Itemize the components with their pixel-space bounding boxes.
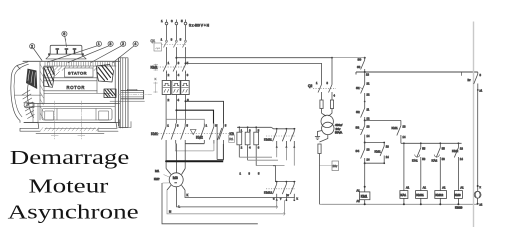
- wire A extension: [332, 57, 365, 59]
- switch lamp branch: [468, 72, 479, 91]
- lamp H1: [474, 191, 481, 205]
- isolator Q2: [308, 84, 336, 100]
- node rail top switch: [364, 57, 366, 59]
- contact KM11 p1: [273, 129, 278, 148]
- wire selfhold bottom: [365, 162, 385, 164]
- stator bottom line: [44, 66, 97, 104]
- contact S1 stop: [356, 84, 365, 108]
- svg-text:Demarrage: Demarrage: [10, 147, 130, 169]
- wire rail to coil: [364, 163, 366, 192]
- svg-text:A1: A1: [406, 186, 410, 190]
- dashed KM12: [266, 188, 296, 190]
- wire KM2 feed phase1: [166, 119, 204, 123]
- rotor wire r1: [185, 190, 295, 198]
- svg-text:S1: S1: [356, 86, 360, 90]
- end shield: [115, 58, 128, 129]
- wire motor feed U: [165, 144, 167, 169]
- wire L3 mid: [185, 48, 187, 65]
- callout 6 top: [62, 31, 67, 46]
- svg-text:KM1: KM1: [392, 126, 399, 130]
- svg-text:R1: R1: [229, 137, 233, 141]
- svg-text:KM1: KM1: [375, 150, 382, 154]
- node KM11 t2: [286, 128, 288, 130]
- svg-text:KM12: KM12: [435, 193, 443, 197]
- svg-text:Q1: Q1: [151, 39, 156, 43]
- wire lamp drop: [477, 90, 479, 191]
- coil KA1: [400, 191, 408, 206]
- node L1 terminal: [161, 19, 168, 25]
- wire KM12 out1: [276, 200, 278, 207]
- rotor lines: [44, 66, 110, 93]
- left winding overhang dark: [44, 67, 55, 87]
- svg-text:KA1: KA1: [400, 193, 406, 197]
- contact KM1 aux: [392, 120, 401, 143]
- node bank1 c1: [238, 126, 240, 128]
- body top line: [23, 61, 120, 66]
- svg-text:KM0: KM0: [455, 193, 461, 197]
- base hatch: [40, 128, 99, 132]
- svg-text:KM12: KM12: [264, 190, 272, 194]
- svg-text:50VA: 50VA: [335, 131, 342, 135]
- wire motor feed V: [176, 144, 178, 169]
- svg-text:A1: A1: [460, 186, 464, 190]
- callout 2 left: [30, 44, 42, 61]
- svg-text:2: 2: [31, 45, 33, 49]
- svg-text:4: 4: [134, 42, 136, 46]
- svg-text:M1: M1: [155, 169, 159, 173]
- contact KM3 box: [217, 124, 223, 160]
- pin labels control rail: [169, 65, 483, 214]
- contact KM2 p3: [219, 124, 224, 144]
- svg-text:A1: A1: [423, 186, 427, 190]
- wire p2 stub: [175, 144, 177, 151]
- node branch KM1aux: [364, 119, 366, 121]
- delta symbol: [190, 130, 196, 135]
- coil KM10: [454, 191, 462, 210]
- box 24V marker: [320, 161, 339, 171]
- contact KM12 p2: [282, 182, 287, 202]
- bus timer branches: [401, 142, 462, 144]
- svg-text:KM1: KM1: [361, 195, 368, 199]
- contact KM12 p1: [273, 182, 278, 202]
- bus control top: [356, 71, 478, 76]
- winding overhang dark: [97, 65, 114, 83]
- wire bank1 out2: [248, 159, 278, 161]
- node timer b1: [420, 142, 422, 144]
- node bus junction U: [165, 160, 167, 162]
- svg-text:S2: S2: [356, 110, 360, 114]
- centerline left: [54, 101, 56, 139]
- node timer b3: [458, 142, 460, 144]
- foot left: [20, 123, 40, 132]
- node tap control phase A: [175, 57, 177, 59]
- breaker Q1: [151, 39, 187, 51]
- contact KM12 p3: [290, 182, 295, 202]
- fan cover dark wedge: [26, 69, 37, 89]
- lower body: [24, 104, 120, 123]
- svg-text:Q2: Q2: [308, 84, 312, 88]
- label R1: [229, 135, 235, 143]
- svg-text:Asynchrone: Asynchrone: [8, 202, 139, 224]
- centerline cross ticks: [51, 135, 85, 137]
- contactor KM1 main contacts: [151, 65, 187, 74]
- node KM12 t2: [286, 181, 288, 183]
- TITLE-TEXT: [8, 147, 139, 224]
- rotor wire r3: [167, 190, 284, 214]
- wire secondary down: [319, 154, 321, 205]
- node coil KM1 top: [364, 186, 366, 188]
- wire p6 to bus: [223, 144, 225, 161]
- timer contact KA1b: [432, 143, 441, 190]
- node timer b0: [403, 142, 405, 144]
- svg-text:STATOR: STATOR: [68, 71, 87, 76]
- resistor bank1 bus: [237, 126, 271, 128]
- svg-text:KM2: KM2: [196, 135, 203, 139]
- control rail: [364, 72, 366, 84]
- svg-text:KM10: KM10: [455, 206, 463, 210]
- centerline right: [80, 101, 82, 139]
- wire KM11 out2: [285, 147, 287, 160]
- rotor wire r4: [162, 183, 258, 224]
- svg-text:KM2: KM2: [452, 149, 459, 153]
- resistor R1a: [237, 127, 242, 157]
- fan cover lower hatch: [22, 90, 34, 119]
- end shield foot: [120, 120, 132, 128]
- coil KM11: [416, 191, 428, 206]
- node tap KM2 phase2: [175, 109, 177, 111]
- contact KM1 selfhold: [375, 143, 385, 164]
- mounting ring hatch: [40, 64, 44, 119]
- svg-text:A1: A1: [442, 186, 446, 190]
- svg-text:6: 6: [63, 32, 65, 36]
- stator hatch band: [46, 67, 97, 76]
- svg-text:KA1: KA1: [412, 159, 418, 163]
- wire control feed A: [176, 58, 332, 85]
- wire KA1 branch: [403, 143, 405, 190]
- node lamp top: [477, 185, 479, 187]
- contact KM1 p3: [181, 124, 186, 144]
- inner cover edge: [27, 80, 33, 118]
- svg-text:3 x 400 V + N: 3 x 400 V + N: [189, 24, 210, 28]
- wire motor feed W: [184, 144, 186, 169]
- rail 0V bottom: [322, 203, 478, 205]
- wire bank1 bus ext: [271, 127, 295, 129]
- wire bank1 out1: [239, 156, 272, 158]
- node tap control phase B: [185, 62, 187, 64]
- svg-text:2: 2: [122, 42, 124, 46]
- fuse F3 secondary: [318, 135, 328, 154]
- dimension mark right: [154, 64, 158, 93]
- svg-text:ROTOR: ROTOR: [67, 85, 86, 90]
- node selfhold bottom: [364, 162, 366, 164]
- overload relay F1 phase3: [181, 81, 189, 95]
- svg-text:A2: A2: [357, 199, 361, 203]
- base bottom line: [36, 128, 104, 133]
- svg-text:KM1: KM1: [151, 66, 158, 70]
- svg-text:A1: A1: [357, 189, 361, 193]
- contact KM2 p2: [209, 124, 214, 144]
- svg-text:KM11: KM11: [416, 193, 424, 197]
- svg-text:S3: S3: [356, 126, 360, 130]
- wire phase1 to contact row: [165, 95, 167, 124]
- wire KM11 out1: [276, 147, 278, 157]
- contact S2: [356, 108, 365, 120]
- svg-text:w: w: [287, 194, 289, 197]
- contact KM2 aux: [452, 143, 459, 190]
- transformer T1: [321, 113, 343, 134]
- wire phase3 to contact row: [185, 95, 187, 124]
- callout 4: [113, 41, 138, 62]
- wire control feed B: [186, 63, 322, 84]
- coil KM12: [435, 191, 447, 206]
- callout 2b: [91, 41, 126, 62]
- overload relay F1 phase2: [172, 81, 180, 95]
- contact S3 start: [356, 120, 365, 142]
- terminal box: [46, 39, 86, 59]
- wire to overload: [166, 72, 168, 81]
- winding hatch dark: [98, 65, 113, 81]
- motor M1: [154, 169, 185, 192]
- svg-text:KM?: KM?: [154, 177, 160, 181]
- dashed KM11: [266, 135, 296, 137]
- node timer b2: [439, 142, 441, 144]
- contactor row dashed link: [158, 133, 231, 135]
- wire L1 drop: [166, 25, 168, 40]
- svg-text:24v: 24v: [333, 164, 338, 168]
- coil KM1: [360, 192, 370, 205]
- node bank1 c3: [255, 126, 257, 128]
- svg-text:Br: Br: [468, 78, 471, 82]
- svg-text:3: 3: [109, 42, 111, 46]
- callout 1: [48, 41, 102, 62]
- contact KM1 p2: [171, 124, 176, 144]
- rotor line end bracket: [276, 205, 285, 215]
- node bus junction W: [184, 160, 186, 162]
- wire link p3-p4: [185, 143, 204, 145]
- svg-text:KM11: KM11: [264, 138, 272, 142]
- shaft left boss: [24, 103, 34, 109]
- svg-text:K: K: [155, 77, 157, 81]
- foot right: [98, 123, 118, 132]
- node selfhold top: [364, 142, 366, 144]
- wire KM12 out2: [283, 200, 285, 214]
- resistor R1b: [245, 127, 250, 160]
- fuse F2 pair: [320, 100, 334, 113]
- wire L2 drop: [175, 25, 177, 40]
- node KM12 t3: [293, 181, 295, 183]
- wire L3 drop: [185, 25, 187, 40]
- page border line: [473, 22, 475, 228]
- svg-text:1: 1: [98, 42, 100, 46]
- contact S4: [356, 143, 365, 164]
- rotor wire r2: [177, 191, 277, 207]
- svg-text:S4: S4: [356, 149, 360, 153]
- node KM11 t3: [293, 128, 295, 130]
- contact KM11 p3: [290, 129, 295, 148]
- wire KM2 feed phase2: [176, 110, 213, 123]
- svg-text:M: M: [169, 210, 171, 214]
- bearing hub: [104, 89, 116, 98]
- ground transformer: [315, 131, 322, 140]
- wire link p2-p5: [175, 150, 214, 152]
- svg-text:S0: S0: [358, 58, 362, 62]
- resistor R1c: [254, 127, 259, 165]
- node bank1 c2: [247, 126, 249, 128]
- svg-text:M3: M3: [173, 176, 178, 180]
- svg-text:K: K: [187, 193, 189, 197]
- svg-text:S0: S0: [357, 65, 361, 69]
- node tap KM2 phase3: [185, 100, 187, 102]
- contact KM11 p2: [282, 129, 287, 148]
- overload relay F1 phase1: [162, 81, 170, 95]
- timer contact KA1a: [412, 143, 421, 190]
- wire KM11 out3: [293, 147, 295, 165]
- wire selfhold top: [365, 142, 385, 144]
- node KM12 t1: [276, 181, 278, 183]
- wire branch top: [365, 119, 401, 121]
- MOTOR-DRAWING: [11, 31, 158, 139]
- bus thick star bar: [166, 160, 223, 162]
- wire bank2 bus ext: [273, 166, 295, 182]
- cooling fins: [45, 62, 115, 67]
- wire KM12 out3: [293, 198, 295, 201]
- svg-text:KA2: KA2: [432, 159, 438, 163]
- switch S control top: [358, 58, 365, 73]
- shaft: [110, 89, 153, 101]
- contact KM1 p1: [162, 124, 167, 144]
- svg-text:KM1: KM1: [151, 132, 158, 136]
- contact KM2 p1: [200, 124, 205, 144]
- fan cover wedge slits: [28, 71, 35, 87]
- wire p5 stub: [213, 144, 215, 151]
- svg-text:Moteur: Moteur: [29, 175, 109, 197]
- svg-text:~: ~: [175, 181, 177, 185]
- node KM11 t1: [276, 128, 278, 130]
- wire phase2 to contact row: [175, 95, 177, 124]
- stator label box: [65, 68, 94, 77]
- wire bank1 out3: [256, 165, 284, 167]
- fan cover outline: [11, 62, 42, 123]
- node L3 terminal: [181, 19, 187, 25]
- node bus junction V: [176, 160, 178, 162]
- wire L1 mid: [166, 48, 168, 65]
- callout 3: [68, 41, 113, 62]
- node L2 terminal: [171, 19, 178, 25]
- wire KM2 feed phase3: [186, 101, 224, 123]
- wire L2 mid: [175, 48, 177, 65]
